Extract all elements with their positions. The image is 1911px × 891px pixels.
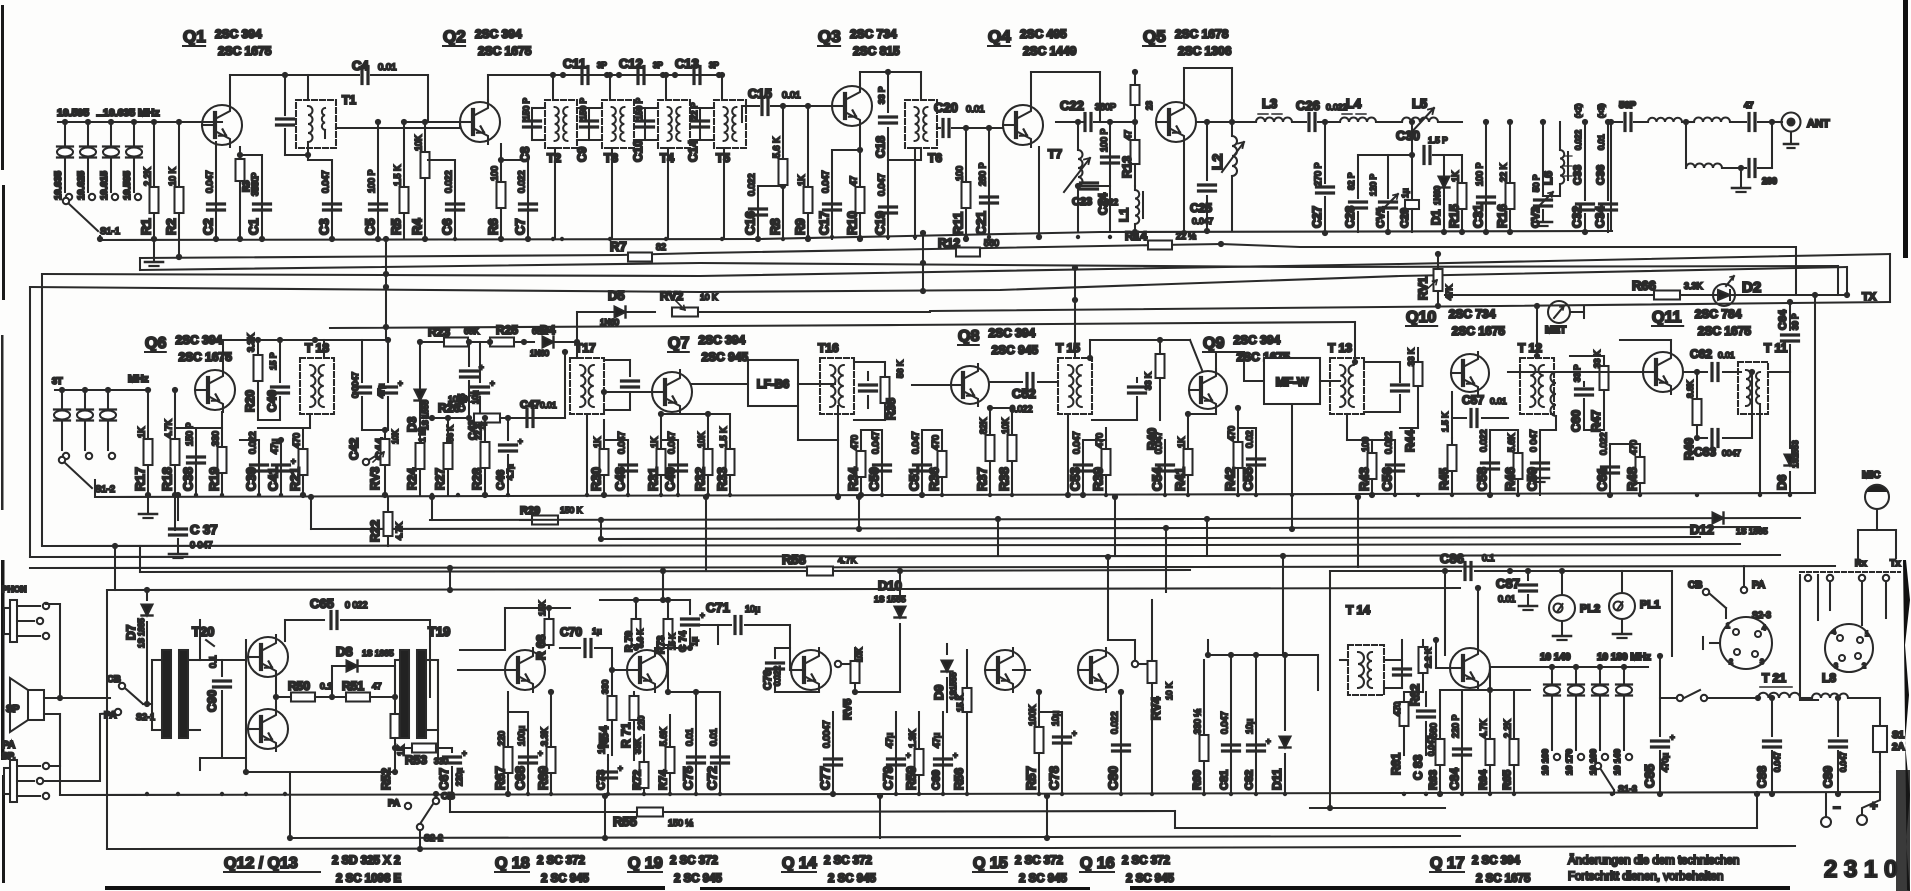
svg-text:R5: R5 (389, 218, 404, 235)
IF transformer T18 (258, 341, 334, 428)
svg-text:5.6K: 5.6K (659, 727, 669, 746)
svg-text:1.5 K: 1.5 K (393, 165, 403, 186)
svg-text:C38: C38 (181, 467, 196, 491)
capacitor C31 100P (1471, 119, 1495, 235)
svg-text:33K: 33K (633, 738, 643, 754)
svg-text:0047: 0047 (1722, 448, 1741, 458)
svg-text:C64: C64 (1777, 309, 1789, 330)
svg-text:2 SC 945: 2 SC 945 (674, 873, 723, 885)
transistor Q16 (1078, 648, 1118, 692)
svg-text:100μ: 100μ (517, 726, 527, 746)
ground (1732, 168, 1750, 192)
resistor R70 5.6K (624, 600, 645, 652)
svg-text:0.047: 0.047 (321, 170, 331, 193)
svg-text:CV2: CV2 (1530, 207, 1542, 228)
junction (260, 237, 264, 241)
capacitor 47 (1744, 100, 1775, 131)
IF transformer T6 (905, 100, 942, 239)
svg-text:1N60: 1N60 (1433, 185, 1442, 205)
switch S2-1 CB/PA (104, 674, 155, 722)
capacitor C81 0.047 (1219, 652, 1240, 794)
junction (1424, 792, 1428, 796)
inductor T21 (1755, 671, 1800, 701)
wire stub (1107, 557, 1109, 640)
wire top bus (553, 74, 722, 76)
svg-text:0.022: 0.022 (1110, 711, 1120, 734)
svg-text:10μ: 10μ (745, 604, 760, 614)
capacitor C71 10u (700, 600, 790, 670)
svg-text:+: + (479, 363, 484, 372)
resistor R15 1K (1444, 155, 1467, 235)
capacitor C75 0.01 (681, 689, 705, 794)
junction (279, 493, 283, 497)
resistor R49 8.8K (1682, 369, 1702, 460)
main bus tier2 (95, 493, 1815, 497)
resistor R67 220 (493, 692, 513, 797)
svg-text:220: 220 (636, 716, 646, 730)
wire stub (310, 497, 312, 529)
scan artifact bottom edge (105, 886, 665, 890)
svg-text:C28: C28 (1343, 206, 1357, 228)
diode D7 1S1885 (124, 587, 153, 707)
wire stub (1074, 268, 1076, 300)
capacitor C61 0.022 (1595, 432, 1619, 498)
svg-text:R25: R25 (496, 323, 518, 337)
svg-text:2 SC 372: 2 SC 372 (537, 855, 585, 867)
svg-text:CV1: CV1 (1375, 207, 1387, 228)
svg-text:280 P: 280 P (978, 162, 988, 186)
svg-text:380P: 380P (1095, 102, 1116, 112)
capacitor tank T1 (277, 75, 309, 155)
svg-text:15 K: 15 K (955, 694, 965, 712)
capacitor C78 10u (1039, 711, 1077, 794)
svg-text:C34: C34 (1593, 206, 1607, 228)
capacitor C19 0.047 (873, 160, 897, 239)
wire stub (600, 520, 602, 539)
svg-text:0.01: 0.01 (1597, 134, 1606, 150)
right frame tier2 (1814, 295, 1816, 493)
resistor R36 470 (922, 430, 947, 495)
resistor R5 1.5K (389, 119, 409, 239)
svg-text:47μ: 47μ (270, 439, 280, 454)
wire stub (1282, 556, 1284, 655)
capacitor C5 100P (363, 119, 387, 242)
junction (1254, 493, 1258, 497)
capacitor C22 380P (1056, 98, 1135, 131)
capacitor C84 220P (1440, 690, 1471, 794)
ladder line 3 (42, 544, 1740, 546)
wire stub (449, 568, 451, 590)
svg-text:100 K: 100 K (448, 394, 471, 404)
svg-text:R42: R42 (1223, 467, 1238, 491)
wire (912, 384, 950, 386)
svg-text:470: 470 (292, 433, 302, 448)
junction (676, 493, 680, 497)
svg-text:0.01: 0.01 (685, 728, 695, 746)
svg-text:PA: PA (388, 798, 400, 808)
svg-text:R34: R34 (846, 466, 861, 491)
svg-text:10.635: 10.635 (53, 170, 64, 200)
junction (526, 237, 530, 241)
svg-text:1S 1885: 1S 1885 (137, 618, 146, 648)
junction (659, 493, 663, 497)
junction (941, 792, 945, 796)
svg-text:R43: R43 (1357, 467, 1372, 491)
junction (1283, 792, 1287, 796)
svg-text:C87: C87 (1496, 576, 1520, 591)
capacitor C18 33P (874, 69, 922, 160)
svg-text:R6: R6 (486, 218, 501, 235)
svg-text:PA: PA (1752, 580, 1765, 591)
wire stub (662, 570, 664, 600)
svg-text:R1: R1 (139, 218, 154, 235)
svg-text:C7: C7 (513, 218, 528, 235)
potentiometer RV2 10K (660, 289, 930, 317)
resistor R32 10K (661, 411, 713, 495)
svg-text:2SC 394: 2SC 394 (1234, 333, 1281, 347)
junction (1290, 493, 1294, 497)
wire collector Q3 (860, 72, 921, 100)
junction (1695, 493, 1699, 497)
capacitor C89 0.047 (1821, 695, 1848, 797)
svg-text:0 0047: 0 0047 (350, 372, 360, 398)
capacitor C10 150 P (631, 97, 654, 162)
junction (720, 237, 724, 241)
resistor R37 82K (975, 405, 995, 495)
junction (1450, 493, 1454, 497)
resistor R74 5.6K (658, 715, 675, 794)
svg-text:2 3 1 0: 2 3 1 0 (1824, 856, 1897, 883)
svg-text:5.6 K: 5.6 K (636, 629, 645, 648)
resistor R38 10K (990, 408, 1017, 495)
svg-text:10.585: 10.585 (122, 170, 133, 200)
wire collector Q2 (488, 75, 553, 106)
transformer T1 (296, 75, 356, 148)
switch (1677, 690, 1758, 701)
svg-text:C75: C75 (681, 766, 696, 790)
svg-text:C39: C39 (244, 467, 259, 491)
junction (214, 237, 218, 241)
wire stub (1477, 588, 1479, 646)
svg-text:82K: 82K (979, 418, 989, 434)
svg-text:0.047: 0.047 (877, 173, 887, 196)
svg-text:C8: C8 (518, 146, 532, 162)
junction (1202, 792, 1206, 796)
svg-text:0.047: 0.047 (911, 431, 921, 454)
R58 line (140, 570, 1190, 572)
capacitor C86 0.1 (1310, 551, 1672, 811)
svg-text:0.02: 0.02 (1245, 430, 1255, 448)
svg-text:2SC 394: 2SC 394 (475, 27, 522, 41)
capacitor C88 0.047 (1755, 695, 1782, 797)
wire stub (1114, 497, 1116, 556)
svg-text:150 K: 150 K (560, 505, 583, 515)
capacitor C43 1u (467, 342, 495, 440)
resistor R57 100K (1024, 689, 1044, 794)
transistor Q12 (248, 635, 288, 679)
svg-text:D12: D12 (1690, 522, 1714, 537)
svg-text:MF-W: MF-W (1276, 375, 1309, 389)
collector Q11 (1620, 340, 1671, 356)
svg-text:R21: R21 (288, 467, 303, 491)
svg-text:PL1: PL1 (1640, 599, 1660, 611)
svg-text:47: 47 (849, 176, 859, 186)
svg-text:1μ: 1μ (592, 626, 602, 636)
frame line top A (42, 254, 1890, 276)
wire stub (1165, 528, 1167, 592)
svg-text:R32: R32 (693, 467, 708, 491)
svg-text:R17: R17 (133, 467, 148, 491)
wire base Q14 (790, 669, 791, 671)
svg-text:C15: C15 (748, 86, 772, 101)
svg-text:C14: C14 (686, 140, 700, 162)
svg-text:2.2 K: 2.2 K (1423, 648, 1433, 668)
svg-text:4: 4 (1762, 625, 1766, 632)
svg-text:C56: C56 (1380, 467, 1395, 491)
capacitor C9 150 P (575, 97, 598, 162)
junction (1488, 493, 1492, 497)
svg-text:R66: R66 (1632, 278, 1656, 293)
svg-text:3P: 3P (653, 61, 663, 70)
svg-text:0.1: 0.1 (320, 681, 332, 691)
svg-text:0.047: 0.047 (1839, 751, 1848, 772)
crystal 10 160 (1540, 664, 1560, 775)
svg-text:+: + (462, 749, 467, 758)
capacitor C28 82P (1343, 155, 1367, 232)
svg-text:10 160: 10 160 (1540, 749, 1550, 775)
svg-text:470: 470 (931, 435, 941, 450)
svg-text:C50: C50 (867, 467, 882, 491)
diode D3 1S1555 (405, 342, 430, 432)
svg-text:470: 470 (1392, 702, 1402, 716)
svg-text:R10: R10 (845, 211, 860, 235)
svg-text:CB: CB (1688, 580, 1702, 591)
svg-text:T16: T16 (818, 341, 839, 355)
junction (1516, 493, 1520, 497)
svg-text:3.3K: 3.3K (1684, 281, 1703, 291)
capacitor C11 3P (560, 56, 610, 84)
svg-text:C17: C17 (817, 211, 832, 235)
svg-text:22 ½: 22 ½ (1176, 231, 1197, 241)
junction (831, 792, 835, 796)
svg-text:8.8K: 8.8K (1685, 380, 1695, 398)
feed line R7 (140, 244, 1221, 258)
jack PA SP (2, 713, 114, 802)
crystal 10.585 MHz (122, 119, 142, 200)
svg-text:L4: L4 (1346, 96, 1362, 111)
svg-text:L8: L8 (1822, 671, 1836, 685)
svg-text:2 SC 394: 2 SC 394 (1472, 855, 1521, 867)
svg-text:3P: 3P (597, 61, 607, 70)
junction (718, 792, 722, 796)
svg-text:R55: R55 (613, 814, 637, 829)
svg-text:C25: C25 (1190, 201, 1212, 215)
IF transformer T16 (818, 341, 854, 414)
capacitor C76 0.022 (762, 648, 819, 692)
ladder line 4 (30, 555, 1780, 557)
svg-text:1N60: 1N60 (600, 318, 620, 327)
capacitor tank (604, 360, 639, 410)
wire collector Q1 (230, 72, 296, 109)
svg-text:1K: 1K (137, 427, 147, 438)
capacitor C8 150 P (518, 97, 541, 162)
resistor R18 4.7K (160, 387, 180, 530)
junction (836, 493, 840, 497)
resistor R2 10K (164, 119, 184, 260)
svg-text:1.5 K: 1.5 K (719, 427, 729, 448)
svg-text:470μ: 470μ (1660, 753, 1670, 772)
junction (1416, 493, 1420, 497)
junction (1758, 493, 1762, 497)
svg-text:D10: D10 (878, 578, 902, 593)
svg-text:C4: C4 (352, 58, 369, 73)
junction (1254, 792, 1258, 796)
svg-text:2SC 734: 2SC 734 (850, 27, 897, 41)
svg-text:2 SC 372: 2 SC 372 (824, 855, 872, 867)
svg-text:Tx: Tx (1890, 558, 1901, 568)
wire (655, 648, 700, 695)
svg-text:2 SC 372: 2 SC 372 (1122, 855, 1170, 867)
svg-text:C57: C57 (1462, 393, 1484, 407)
svg-text:560: 560 (984, 238, 999, 248)
svg-text:R56: R56 (952, 768, 966, 790)
svg-text:10.635 MHz: 10.635 MHz (103, 107, 160, 119)
svg-text:R16: R16 (1495, 204, 1510, 228)
junction (940, 493, 944, 497)
wire (57, 107, 222, 122)
crystal 10 160 (1588, 664, 1608, 775)
svg-text:T 21: T 21 (1762, 671, 1786, 685)
svg-text:470: 470 (1629, 440, 1639, 455)
wire (798, 406, 841, 500)
svg-text:0.0047: 0.0047 (822, 720, 832, 748)
rotary switch S2-3 (1703, 610, 1772, 669)
svg-text:L2: L2 (1209, 153, 1225, 170)
junction (1108, 235, 1112, 239)
svg-text:0.01: 0.01 (378, 62, 397, 73)
svg-text:...: ... (96, 108, 104, 118)
svg-text:T1: T1 (342, 93, 356, 107)
svg-text:T17: T17 (575, 341, 596, 355)
svg-text:2A: 2A (1892, 742, 1905, 753)
svg-text:+: + (1670, 733, 1675, 742)
svg-text:2SC 394: 2SC 394 (176, 333, 223, 347)
svg-text:R53: R53 (405, 753, 427, 767)
capacitor C56 0.022 (1372, 431, 1404, 495)
svg-text:47: 47 (1123, 130, 1133, 140)
junction (585, 493, 589, 497)
lower frame line (107, 846, 1795, 849)
resistor R14 22.5 (1148, 241, 1172, 250)
svg-text:C48: C48 (613, 467, 628, 491)
transistor Q3 (832, 84, 872, 128)
transistor Q9 (1189, 369, 1227, 411)
resistor R68 15K (534, 601, 554, 660)
junction (301, 493, 305, 497)
svg-text:+: + (490, 379, 495, 388)
transistor Q5 (1156, 100, 1196, 236)
junction (1638, 493, 1642, 497)
svg-text:C32: C32 (1570, 206, 1584, 228)
svg-text:C40: C40 (265, 390, 279, 412)
wire stub (114, 546, 116, 590)
resistor R59 1.3K (904, 712, 924, 794)
junction (858, 235, 862, 239)
rotary switch S1-2 (59, 457, 115, 495)
resistor R73 15K (656, 600, 677, 692)
svg-text:1K: 1K (593, 437, 603, 448)
svg-text:2SC 394: 2SC 394 (989, 326, 1036, 340)
wire (1358, 154, 1412, 156)
resistor R71 220 (619, 692, 646, 760)
transformer T19 (395, 624, 450, 738)
svg-text:C60: C60 (1569, 410, 1583, 432)
wire collector Q5 (1184, 68, 1232, 122)
svg-text:C20: C20 (934, 100, 958, 115)
svg-text:C86: C86 (1440, 551, 1464, 566)
junction (606, 792, 610, 796)
svg-text:10 K: 10 K (1164, 682, 1174, 700)
svg-text:2SC 1675: 2SC 1675 (478, 44, 532, 58)
junction (1229, 792, 1233, 796)
svg-text:220: 220 (497, 731, 507, 746)
svg-text:330 ½: 330 ½ (1193, 708, 1203, 734)
svg-text:330: 330 (211, 431, 221, 446)
resistor R50 0.1 (288, 679, 345, 702)
junction (728, 493, 732, 497)
svg-text:0.047: 0.047 (871, 431, 881, 454)
transformer T20 (152, 624, 214, 738)
svg-text:47μ: 47μ (376, 384, 386, 398)
resistor R26 100K (420, 394, 535, 423)
wire collector Q4 (1031, 72, 1100, 122)
svg-text:R18: R18 (160, 467, 175, 491)
TX line (1445, 294, 1847, 296)
svg-text:R38: R38 (997, 467, 1012, 491)
wire (394, 660, 396, 697)
junction (1186, 493, 1190, 497)
crystal 10.635 MHz (53, 119, 73, 200)
svg-text:100: 100 (955, 166, 965, 181)
svg-text:1S 1885: 1S 1885 (362, 648, 394, 658)
wire stub (1046, 796, 1048, 838)
svg-text:2: 2 (1862, 663, 1866, 670)
junction (1393, 493, 1397, 497)
svg-text:R27: R27 (433, 468, 447, 490)
junction (145, 792, 149, 796)
svg-text:10 140: 10 140 (1612, 749, 1622, 775)
resistor R40 33K (1143, 340, 1165, 450)
variable capacitor CV2 50P (1530, 119, 1553, 228)
capacitor 56P (1608, 100, 1648, 131)
svg-text:2 SC 945: 2 SC 945 (541, 873, 590, 885)
junction (526, 792, 530, 796)
capacitor C38 150P (175, 422, 205, 495)
junction (506, 792, 510, 796)
junction (1370, 493, 1374, 497)
resistor R19 330 (196, 412, 227, 495)
svg-text:R69: R69 (536, 766, 551, 790)
svg-text:RV3: RV3 (368, 467, 382, 490)
resistor R16 22K (1495, 119, 1515, 235)
resistor R31 1K (646, 411, 666, 495)
svg-text:2 SC 945: 2 SC 945 (1019, 873, 1068, 885)
capacitor C58 0.022 (1475, 429, 1499, 498)
svg-text:47μ: 47μ (932, 733, 942, 748)
capacitor C82 10u (1244, 652, 1272, 794)
transistor Q7 (652, 370, 692, 414)
junction (917, 792, 921, 796)
